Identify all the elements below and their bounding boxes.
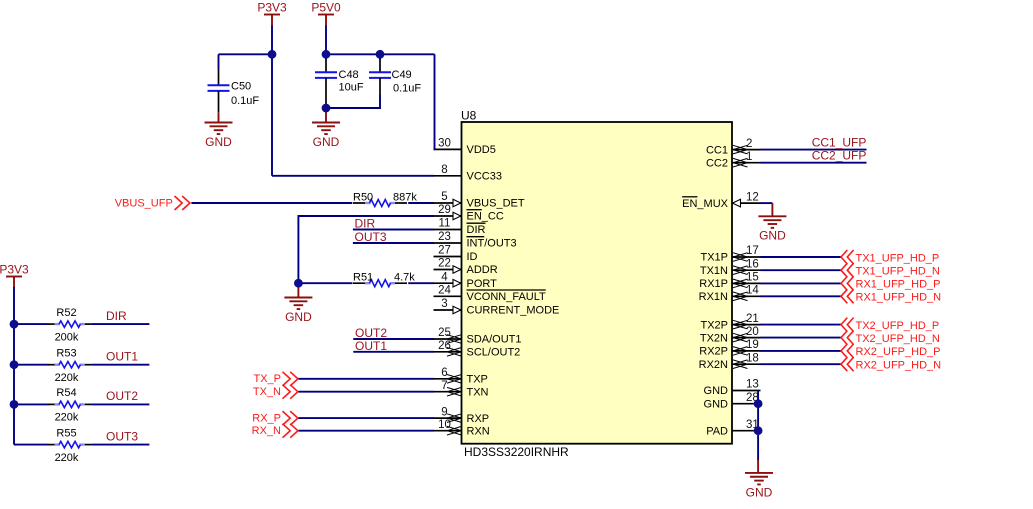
- node P3V3/C50 junction: [268, 50, 277, 59]
- svg-text:5: 5: [441, 191, 447, 203]
- wire junction to R51: [298, 282, 352, 284]
- wire rail to R55: [14, 444, 49, 446]
- svg-text:INT/OUT3: INT/OUT3: [467, 238, 517, 250]
- resistor R54 220k: [48, 387, 91, 424]
- capacitor C49: [369, 54, 421, 95]
- svg-text:R50: R50: [353, 191, 373, 203]
- svg-text:220k: 220k: [55, 372, 79, 384]
- node DIR net label: [355, 217, 376, 231]
- pin 6 TXP: [434, 367, 488, 386]
- node ladder junction: [10, 320, 19, 329]
- svg-text:HD3SS3220IRNHR: HD3SS3220IRNHR: [464, 445, 569, 459]
- svg-text:TX_P: TX_P: [253, 373, 281, 385]
- wire OUT1 to pin 26: [353, 351, 434, 353]
- svg-text:R54: R54: [56, 387, 76, 399]
- svg-text:RX1P: RX1P: [699, 278, 728, 290]
- svg-text:TX2_UFP_HD_N: TX2_UFP_HD_N: [856, 333, 940, 345]
- wire C48 gnd stub: [325, 108, 327, 123]
- wire to port RX1_UFP_HD_P: [761, 282, 842, 284]
- svg-text:OUT2: OUT2: [106, 389, 138, 403]
- wire to port TX2_UFP_HD_N: [761, 337, 842, 339]
- svg-text:RX2N: RX2N: [699, 359, 728, 371]
- pin 25 SDA/OUT1: [434, 327, 522, 346]
- pin 21 TX2P: [700, 313, 760, 332]
- svg-text:CURRENT_MODE: CURRENT_MODE: [467, 305, 560, 317]
- svg-text:26: 26: [438, 340, 451, 352]
- wire P3V3 stub down: [271, 26, 273, 55]
- svg-text:11: 11: [439, 218, 451, 230]
- svg-text:EN_MUX: EN_MUX: [682, 198, 729, 210]
- node CC2_UFP net label: [812, 149, 867, 163]
- svg-text:220k: 220k: [55, 452, 79, 464]
- pin 1 CC2: [706, 151, 761, 170]
- pin 13 GND: [704, 379, 761, 398]
- wire C49 bottom to C48 junction: [326, 95, 380, 108]
- node ladder junction: [10, 400, 19, 409]
- wire P5V0 stub down: [325, 26, 327, 55]
- svg-text:0.1uF: 0.1uF: [231, 95, 259, 107]
- wire junction gnd stub: [297, 283, 299, 297]
- node ladder junction: [10, 360, 19, 369]
- svg-text:DIR: DIR: [467, 224, 486, 236]
- wire R54 to net: [91, 403, 149, 405]
- node C48 bottom junction: [322, 104, 331, 113]
- svg-text:VBUS_UFP: VBUS_UFP: [115, 197, 173, 209]
- wire R50 to pin 5: [408, 202, 434, 204]
- node GND pin28 junction: [754, 399, 763, 408]
- svg-text:GND: GND: [285, 310, 312, 324]
- svg-text:ID: ID: [467, 251, 478, 263]
- ground GND under EN_CC: [284, 298, 312, 324]
- node OUT3 net label: [106, 429, 138, 443]
- wire C50 top corner: [218, 54, 220, 69]
- resistor R55 220k: [48, 427, 91, 464]
- svg-text:GND: GND: [759, 229, 786, 243]
- svg-text:TX2P: TX2P: [700, 319, 728, 331]
- svg-text:C49: C49: [392, 69, 412, 81]
- wire P5V0 rail right: [326, 53, 435, 55]
- svg-text:18: 18: [746, 352, 759, 364]
- resistor R53 220k: [48, 347, 91, 384]
- pin 11 DIR: [434, 218, 486, 237]
- svg-text:12: 12: [746, 191, 759, 203]
- node OUT1 net label: [355, 339, 387, 353]
- svg-text:10: 10: [438, 419, 451, 431]
- svg-text:VDD5: VDD5: [467, 144, 496, 156]
- pin 17 TX1P: [700, 245, 760, 264]
- port VBUS_UFP: [115, 196, 190, 210]
- port RX2_UFP_HD_P: [841, 344, 940, 358]
- svg-text:TX2_UFP_HD_P: TX2_UFP_HD_P: [856, 320, 940, 332]
- pin 8 VCC33: [434, 164, 502, 183]
- port TX2_UFP_HD_P: [841, 318, 939, 332]
- node CC1_UFP net label: [812, 136, 867, 150]
- wire TX_N to pin 7: [299, 391, 435, 393]
- wire CC2: [761, 162, 867, 164]
- wire to port TX1_UFP_HD_N: [761, 269, 842, 271]
- svg-text:TX1_UFP_HD_N: TX1_UFP_HD_N: [856, 266, 940, 278]
- svg-text:PORT: PORT: [467, 278, 498, 290]
- svg-text:30: 30: [438, 138, 451, 150]
- power symbol P3V3 (top): [257, 0, 287, 26]
- wire rail to R52: [14, 323, 49, 325]
- svg-text:P3V3: P3V3: [257, 0, 287, 14]
- wire pin13 GND down rail: [757, 391, 759, 461]
- port RX_N: [252, 424, 298, 438]
- wire PAD gnd stub: [757, 460, 759, 473]
- svg-text:CC2: CC2: [706, 157, 728, 169]
- pin 14 RX1N: [699, 285, 761, 304]
- svg-text:TXN: TXN: [467, 386, 489, 398]
- svg-text:R55: R55: [56, 427, 76, 439]
- resistor R50 887k: [353, 191, 417, 206]
- svg-text:4.7k: 4.7k: [394, 272, 415, 284]
- pin 20 TX2N: [700, 326, 761, 345]
- wire P3V3 rail down to VCC33: [271, 54, 273, 176]
- svg-text:GND: GND: [704, 385, 729, 397]
- wire rail to R53: [14, 364, 49, 366]
- pin 24 VCONN_FAULT: [434, 285, 547, 304]
- svg-text:R51: R51: [353, 272, 373, 284]
- svg-text:RX2P: RX2P: [699, 346, 728, 358]
- svg-text:21: 21: [746, 313, 759, 325]
- node P5V0/C48 junction: [322, 50, 331, 59]
- svg-text:10uF: 10uF: [339, 82, 364, 94]
- resistor R52 200k: [48, 307, 91, 344]
- svg-text:9: 9: [441, 406, 447, 418]
- ground GND under EN_MUX: [758, 216, 786, 242]
- power symbol P5V0: [311, 0, 341, 26]
- svg-text:6: 6: [441, 367, 447, 379]
- svg-text:P3V3: P3V3: [0, 262, 29, 276]
- IC U8 HD3SS3220IRNHR chip body: [461, 109, 732, 460]
- node C49 top junction: [376, 50, 385, 59]
- resistor R51 4.7k: [353, 272, 415, 287]
- svg-text:20: 20: [746, 326, 759, 338]
- node OUT1 net label: [106, 350, 138, 364]
- pin 27 ID: [434, 245, 478, 264]
- svg-text:RXP: RXP: [467, 413, 490, 425]
- svg-text:27: 27: [438, 245, 451, 257]
- node OUT3 net label: [355, 230, 387, 244]
- wire P3V3 rail to C50: [219, 53, 274, 55]
- svg-text:TX1_UFP_HD_P: TX1_UFP_HD_P: [856, 252, 940, 264]
- pin 10 RXN: [434, 419, 490, 438]
- port TX2_UFP_HD_N: [841, 331, 940, 345]
- svg-text:SDA/OUT1: SDA/OUT1: [467, 334, 522, 346]
- wire TX_P to pin 6: [299, 378, 435, 380]
- capacitor C50: [208, 70, 260, 113]
- svg-text:200k: 200k: [55, 331, 79, 343]
- svg-text:GND: GND: [704, 398, 729, 410]
- wire C50 gnd stub: [218, 112, 220, 122]
- wire to port RX2_UFP_HD_N: [761, 363, 842, 365]
- wire RX_N to pin 10: [299, 430, 435, 432]
- port TX1_UFP_HD_N: [841, 263, 940, 277]
- svg-text:14: 14: [746, 285, 759, 297]
- pin 3 CURRENT_MODE: [434, 298, 560, 317]
- port RX_P: [252, 411, 298, 425]
- pin 30 VDD5: [434, 138, 496, 157]
- svg-text:4: 4: [441, 271, 448, 283]
- svg-text:TX1N: TX1N: [700, 265, 728, 277]
- wire R53 to net: [91, 364, 149, 366]
- pin 31 PAD: [706, 419, 760, 438]
- ground GND under C50: [205, 123, 233, 149]
- svg-text:DIR: DIR: [106, 309, 127, 323]
- svg-text:CC1: CC1: [706, 144, 728, 156]
- svg-text:GND: GND: [313, 135, 340, 149]
- svg-text:RX2_UFP_HD_N: RX2_UFP_HD_N: [856, 360, 942, 372]
- ground GND under C48: [312, 123, 340, 149]
- svg-text:TX_N: TX_N: [253, 386, 281, 398]
- svg-text:RX_N: RX_N: [252, 425, 281, 437]
- svg-text:23: 23: [438, 231, 451, 243]
- wire EN_MUX to gnd: [760, 202, 772, 204]
- svg-text:ADDR: ADDR: [467, 264, 498, 276]
- wire to pin 30 VDD5: [433, 148, 436, 150]
- svg-text:16: 16: [746, 258, 759, 270]
- node OUT2 net label: [106, 389, 138, 403]
- svg-text:TXP: TXP: [467, 374, 488, 386]
- pin 12 EN_MUX: [682, 191, 760, 210]
- wire OUT3 to pin 23: [353, 242, 434, 244]
- port TX_P: [253, 372, 297, 386]
- pin 5 VBUS_DET: [434, 191, 525, 210]
- wire RX_P to pin 9: [299, 417, 435, 419]
- svg-text:RXN: RXN: [467, 425, 490, 437]
- svg-text:PAD: PAD: [706, 425, 728, 437]
- wire R51 to pin 4 PORT: [408, 282, 434, 284]
- wire R52 to net: [91, 323, 149, 325]
- svg-text:P5V0: P5V0: [311, 0, 341, 14]
- svg-text:CC1_UFP: CC1_UFP: [812, 136, 867, 150]
- svg-text:C50: C50: [231, 81, 251, 93]
- svg-text:TX1P: TX1P: [700, 252, 728, 264]
- power symbol P3V3 (ladder): [0, 262, 29, 288]
- pin 22 ADDR: [434, 258, 498, 277]
- svg-text:25: 25: [438, 327, 451, 339]
- svg-text:8: 8: [441, 164, 447, 176]
- port TX1_UFP_HD_P: [841, 250, 939, 264]
- svg-text:GND: GND: [205, 135, 232, 149]
- svg-text:1: 1: [746, 151, 752, 163]
- pin 15 RX1P: [699, 272, 760, 291]
- wire OUT2 to pin 25: [353, 338, 434, 340]
- svg-text:VCONN_FAULT: VCONN_FAULT: [467, 291, 547, 303]
- svg-text:RX1N: RX1N: [699, 291, 728, 303]
- wire to port RX2_UFP_HD_P: [761, 350, 842, 352]
- svg-text:22: 22: [438, 258, 451, 270]
- pin 9 RXP: [434, 406, 490, 425]
- svg-text:RX2_UFP_HD_P: RX2_UFP_HD_P: [856, 346, 941, 358]
- wire to port TX2_UFP_HD_P: [761, 324, 842, 326]
- wire to pin 8 VCC33: [272, 175, 434, 177]
- svg-text:0.1uF: 0.1uF: [393, 83, 421, 95]
- svg-text:DIR: DIR: [355, 217, 376, 231]
- svg-text:29: 29: [438, 204, 451, 216]
- wire ladder rail: [13, 287, 15, 445]
- pin 19 RX2P: [699, 339, 760, 358]
- svg-text:17: 17: [746, 245, 759, 257]
- svg-text:EN_CC: EN_CC: [467, 211, 504, 223]
- svg-text:VCC33: VCC33: [467, 171, 502, 183]
- wire to port TX1_UFP_HD_P: [761, 256, 842, 258]
- svg-text:OUT3: OUT3: [106, 429, 138, 443]
- svg-text:887k: 887k: [393, 191, 417, 203]
- svg-text:U8: U8: [461, 109, 477, 123]
- svg-text:GND: GND: [746, 485, 773, 499]
- wire rail down to VDD5: [434, 54, 436, 149]
- pin 4 PORT: [434, 271, 498, 290]
- svg-text:RX_P: RX_P: [252, 412, 281, 424]
- ground GND under PAD: [745, 473, 773, 499]
- wire R55 to net: [91, 444, 149, 446]
- svg-text:SCL/OUT2: SCL/OUT2: [467, 347, 521, 359]
- wire to port RX1_UFP_HD_N: [761, 295, 842, 297]
- pin 2 CC1: [706, 138, 761, 157]
- wire CC1: [761, 149, 867, 151]
- svg-text:OUT3: OUT3: [355, 230, 387, 244]
- pin 16 TX1N: [700, 258, 761, 277]
- svg-text:TX2N: TX2N: [700, 332, 728, 344]
- wire rail to R54: [14, 403, 49, 405]
- svg-text:2: 2: [746, 138, 752, 150]
- svg-text:OUT1: OUT1: [355, 339, 387, 353]
- svg-text:7: 7: [441, 380, 447, 392]
- pin 18 RX2N: [699, 352, 761, 371]
- svg-text:13: 13: [746, 379, 759, 391]
- pin 29 EN_CC: [434, 204, 504, 223]
- svg-text:CC2_UFP: CC2_UFP: [812, 149, 867, 163]
- node EN_CC/R51/GND junction: [294, 279, 303, 288]
- svg-text:24: 24: [438, 285, 451, 297]
- port RX1_UFP_HD_N: [841, 289, 941, 303]
- svg-text:220k: 220k: [55, 412, 79, 424]
- port TX_N: [253, 385, 298, 399]
- node PAD pin31 junction: [754, 426, 763, 435]
- pin 26 SCL/OUT2: [434, 340, 521, 359]
- svg-text:R53: R53: [56, 347, 76, 359]
- wire VBUS_UFP to R50: [191, 202, 352, 204]
- svg-text:R52: R52: [56, 307, 76, 319]
- wire EN_MUX gnd stub: [771, 203, 773, 216]
- pin 28 GND: [704, 392, 761, 411]
- svg-text:VBUS_DET: VBUS_DET: [467, 198, 525, 210]
- wire EN_CC to gnd rail: [298, 216, 434, 283]
- svg-text:19: 19: [746, 339, 759, 351]
- svg-text:C48: C48: [339, 69, 359, 81]
- svg-text:RX1_UFP_HD_P: RX1_UFP_HD_P: [856, 279, 941, 291]
- svg-text:OUT1: OUT1: [106, 350, 138, 364]
- node OUT2 net label: [355, 326, 387, 340]
- wire DIR to pin 11: [353, 229, 434, 231]
- node DIR net label: [106, 309, 127, 323]
- pin 7 TXN: [434, 380, 489, 399]
- port RX2_UFP_HD_N: [841, 357, 941, 371]
- capacitor C48: [315, 54, 364, 108]
- svg-text:RX1_UFP_HD_N: RX1_UFP_HD_N: [856, 292, 942, 304]
- svg-text:3: 3: [441, 298, 447, 310]
- pin 23 INT/OUT3: [434, 231, 517, 250]
- svg-text:15: 15: [746, 272, 759, 284]
- port RX1_UFP_HD_P: [841, 276, 940, 290]
